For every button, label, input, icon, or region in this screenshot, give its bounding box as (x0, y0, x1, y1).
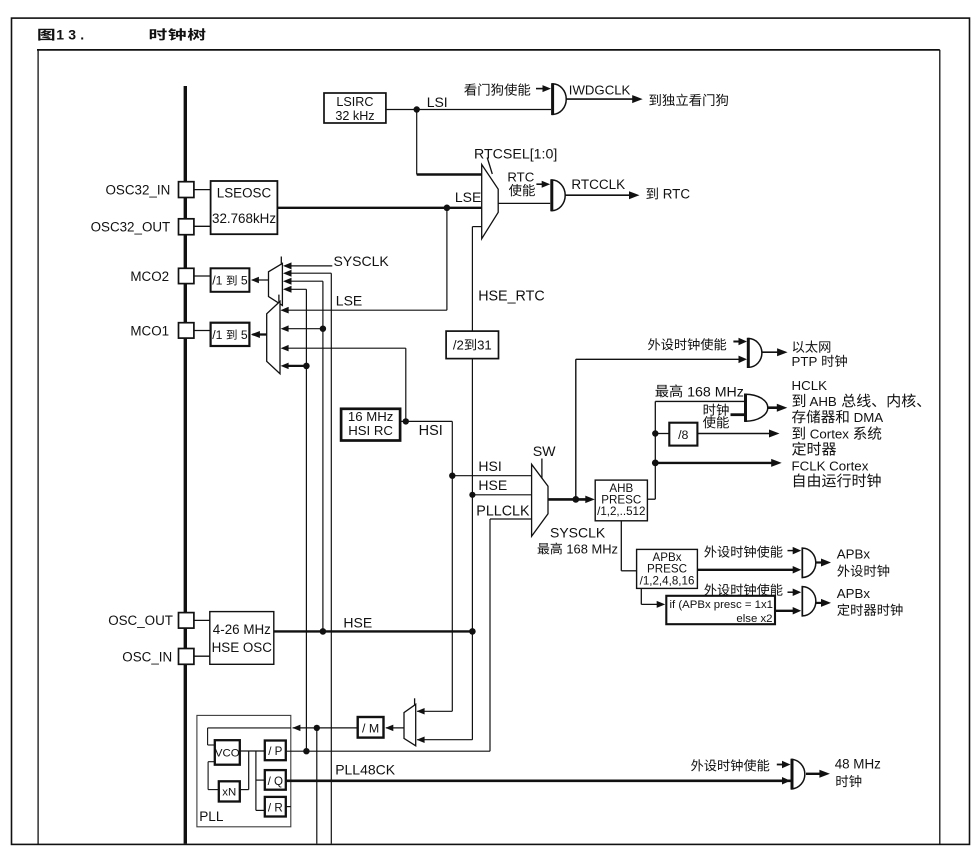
svg-text:4-26 MHz: 4-26 MHz (213, 622, 271, 637)
AND gate RTC (552, 179, 565, 211)
svg-text:LSE: LSE (455, 189, 481, 205)
svg-text:16 MHz: 16 MHz (348, 409, 393, 424)
svg-text:/ R: / R (268, 802, 283, 815)
wire /R stub (286, 806, 291, 808)
pin MCO1 (130, 323, 210, 339)
wire AHB to APBx (621, 521, 636, 571)
label PLL48CK (335, 761, 396, 777)
junction LSI (414, 106, 420, 112)
wire PTP enable arrow (733, 338, 747, 345)
divider /1到5 MCO1 (211, 323, 250, 346)
junction HSE MCO1 (320, 326, 326, 332)
junction HSE at SW tap (469, 492, 475, 498)
svg-text:HSE: HSE (343, 615, 372, 631)
wire AHB riser (647, 401, 744, 499)
arrow PTP signal (739, 356, 748, 364)
wire PLLCLK (286, 750, 490, 752)
wire PLL48CK (286, 779, 792, 782)
svg-text:/1,2,..512: /1,2,..512 (597, 505, 645, 518)
wire /M out (292, 725, 357, 732)
wire HSI to MCO1 mux (281, 345, 406, 422)
block PLL (197, 715, 291, 826)
wire HSE_RTC lower (471, 359, 473, 740)
wire RTC mux out (498, 202, 550, 204)
svg-text:else x2: else x2 (736, 613, 772, 625)
svg-text:APBx: APBx (837, 547, 871, 562)
svg-text:32 kHz: 32 kHz (335, 109, 374, 123)
divider /Q (265, 770, 286, 790)
AND gate APBx peripheral (802, 547, 816, 578)
svg-text:MCO1: MCO1 (130, 323, 169, 338)
svg-text:/ P: / P (268, 745, 282, 758)
arrow 48M signal (782, 777, 791, 785)
svg-text:OSC32_IN: OSC32_IN (106, 183, 171, 198)
wire if out (775, 607, 801, 615)
svg-text:/ M: / M (362, 722, 379, 736)
label watchdog enable (464, 83, 530, 95)
junction PLLI2S feed (314, 725, 320, 731)
wire HSE_RTC notch (472, 226, 481, 228)
svg-text:Cortex: Cortex (806, 427, 853, 442)
junction PLLCLK MCO1 (303, 363, 310, 370)
wire APB2 out (816, 599, 831, 607)
svg-text:RTCSEL[1:0]: RTCSEL[1:0] (474, 146, 557, 162)
pin OSC_IN (122, 649, 210, 665)
svg-text:FCLK Cortex: FCLK Cortex (792, 458, 869, 473)
svg-text:xN: xN (222, 787, 236, 799)
svg-text:HSI: HSI (478, 458, 501, 474)
prescaler AHB PRESC (595, 480, 647, 521)
wire MCO2 mux out (251, 277, 269, 283)
svg-text:RTC: RTC (659, 187, 690, 202)
wire 48M enable arrow (777, 761, 791, 768)
figure title (38, 26, 205, 42)
wire SYSCLK to PTP gate (576, 359, 742, 499)
prescaler APBx PRESC (637, 549, 698, 588)
svg-text:LSE: LSE (336, 292, 362, 308)
svg-text:PLL: PLL (199, 809, 224, 824)
label clock enable HCLK (703, 404, 729, 429)
svg-text:PLLCLK: PLLCLK (476, 504, 530, 520)
wire APBx out (697, 566, 801, 574)
label HSE at SW (478, 477, 507, 493)
wire divider feed (256, 751, 265, 810)
svg-text:DMA: DMA (850, 410, 883, 425)
wire PLLCLK to SW mux (476, 504, 531, 520)
divider /2到31 (446, 331, 498, 359)
pin OSC32_OUT (91, 219, 211, 235)
wire HSE (274, 615, 473, 632)
svg-text:VCO: VCO (215, 748, 240, 760)
wire SYSCLK stub to MCO2 mux (283, 253, 389, 269)
wire RTC enable arrow (536, 181, 550, 188)
wire PLLCLK riser (489, 519, 491, 751)
label APB1 clock enable (704, 545, 782, 557)
svg-text:/1: /1 (212, 328, 226, 342)
oscillator 4-26 MHz HSE OSC (210, 612, 274, 665)
svg-text:LSEOSC: LSEOSC (217, 186, 272, 201)
wire 48M out (806, 770, 830, 778)
wire SYSCLK out (548, 496, 595, 504)
mux MCO2 (269, 257, 283, 306)
wire RTCCLK out (565, 177, 639, 199)
pin OSC_OUT (108, 613, 210, 629)
junction FCLK (652, 460, 659, 467)
wire HSE to MCO2 mux (283, 278, 323, 632)
wire HSI to SW mux (452, 458, 531, 476)
wire HSI down (451, 421, 453, 711)
wire PLLCLK to MCO2 mux (283, 286, 306, 751)
wire VCO out (240, 750, 265, 752)
label APB2 clock enable (704, 584, 782, 596)
junction HSI mco (403, 418, 409, 424)
block VCO (215, 740, 240, 765)
oscillator LSEOSC 32.768kHz (211, 181, 278, 234)
mux PLL source (404, 698, 416, 746)
wire HSE to PLL mux (417, 737, 473, 744)
svg-text:SYSCLK: SYSCLK (334, 253, 390, 269)
junction HSE rtc (469, 628, 476, 635)
svg-text:APBx: APBx (837, 586, 871, 601)
wire HSE to SW mux (472, 494, 531, 496)
mux SW (532, 444, 557, 536)
wire APB1 out (816, 559, 831, 567)
wire PLL input (208, 728, 291, 745)
divider /1到5 MCO2 (211, 268, 250, 292)
svg-text:PLL48CK: PLL48CK (335, 761, 396, 777)
wire APB2 enable arrow (788, 589, 802, 597)
svg-text:HSI RC: HSI RC (348, 423, 393, 438)
svg-text:/1: /1 (212, 274, 226, 288)
label cortex systick (792, 426, 881, 455)
wire HCLK enable stub (731, 413, 745, 416)
svg-text:13.: 13. (56, 26, 88, 42)
label 48 MHz clock (835, 757, 881, 788)
svg-text:HSE_RTC: HSE_RTC (478, 288, 544, 304)
AND gate PTP (748, 338, 762, 368)
svg-text:/ Q: / Q (268, 775, 283, 788)
wire FCLK (655, 459, 781, 467)
wire APBx to if box (641, 588, 665, 608)
wire LSI to RTC mux (417, 110, 482, 175)
svg-text:LSI: LSI (427, 94, 448, 110)
AND gate IWDG (553, 83, 567, 115)
svg-text:PTP: PTP (792, 354, 821, 369)
multiplier if APBx presc (666, 596, 775, 625)
AND gate APBx timer (802, 586, 816, 617)
wire PTP out (762, 348, 788, 356)
label PTP clock enable (648, 338, 726, 350)
wire HSE_RTC (472, 227, 544, 332)
wire HSE to MCO1 mux (281, 325, 323, 332)
wire IWDGCLK out (566, 83, 643, 104)
divider /P (265, 741, 286, 761)
svg-text:if (APBx presc = 1x1: if (APBx presc = 1x1 (670, 599, 774, 611)
label to independent watchdog (649, 94, 728, 106)
chip boundary bus line (184, 86, 187, 844)
svg-text:168 MHz: 168 MHz (683, 384, 744, 400)
svg-text:MCO2: MCO2 (130, 269, 169, 284)
junction LSE (444, 205, 451, 212)
svg-text:SYSCLK: SYSCLK (550, 524, 606, 540)
wire LSE (277, 189, 481, 208)
oscillator LSIRC 32 kHz (324, 93, 386, 123)
mux RTCSEL (474, 146, 557, 238)
svg-text:HCLK: HCLK (792, 378, 828, 393)
divider /M (358, 717, 384, 738)
pin OSC32_IN (106, 182, 211, 198)
svg-text:OSC_IN: OSC_IN (122, 649, 172, 664)
label ethernet PTP (792, 341, 847, 369)
label max 168 MHz HCLK (655, 384, 743, 400)
wire MCO1 mux out (251, 331, 267, 338)
svg-text:31: 31 (477, 338, 492, 353)
wire div8 out (697, 430, 779, 438)
junction SYSCLK (572, 496, 579, 503)
divider /R (265, 797, 286, 817)
wire HSI to PLL mux (417, 708, 453, 715)
wire HSI out (400, 421, 452, 439)
label APBx peripheral clock (837, 547, 889, 577)
svg-text:SW: SW (533, 444, 556, 460)
label 48M clock enable (691, 759, 769, 771)
label SYSCLK (538, 524, 618, 556)
wire PLLCLK to MCO1 mux (281, 363, 307, 370)
svg-text:RTC: RTC (507, 170, 534, 185)
svg-text:32.768kHz: 32.768kHz (212, 211, 276, 226)
svg-text:IWDGCLK: IWDGCLK (569, 83, 631, 98)
svg-text:HSI: HSI (419, 423, 443, 439)
wire LSI (386, 94, 551, 110)
svg-text:168 MHz: 168 MHz (563, 541, 618, 556)
AND gate 48MHz (792, 759, 805, 790)
AND gate HCLK (746, 394, 768, 422)
svg-text:OSC32_OUT: OSC32_OUT (91, 220, 171, 235)
svg-text:5: 5 (238, 328, 248, 342)
wire HCLK out (768, 404, 788, 412)
svg-text:/2: /2 (453, 338, 464, 353)
block xN (219, 781, 240, 801)
label FCLK (792, 458, 881, 487)
wire PLL mux out (385, 725, 404, 732)
label to RTC (646, 187, 690, 202)
svg-text:AHB: AHB (807, 394, 841, 409)
svg-text:HSE: HSE (478, 477, 507, 493)
wire PLLI2S feed down (316, 728, 318, 844)
svg-text:/8: /8 (678, 428, 688, 442)
wire APB1 enable arrow (788, 547, 802, 555)
wire xN tap (240, 751, 249, 790)
wire LSE to MCO1 mux (281, 208, 447, 314)
svg-text:LSIRC: LSIRC (336, 95, 373, 109)
svg-text:48 MHz: 48 MHz (835, 757, 881, 772)
oscillator 16 MHz HSI RC (341, 409, 400, 441)
divider /8 (669, 423, 697, 446)
label HCLK lines (792, 378, 922, 425)
svg-text:RTCCLK: RTCCLK (571, 177, 625, 192)
wire VCO feedback (208, 762, 219, 790)
junction div8 (652, 430, 658, 436)
junction HSE mco (320, 628, 327, 635)
pin MCO2 (130, 268, 210, 284)
wire PLLI2S to MCO2 mux (283, 270, 331, 844)
junction HSI SW (449, 473, 455, 479)
svg-text:/1,2,4,8,16: /1,2,4,8,16 (640, 574, 695, 587)
svg-text:OSC_OUT: OSC_OUT (108, 613, 173, 628)
wire to div8 (655, 433, 669, 435)
mux MCO1 (267, 295, 280, 374)
svg-text:HSE OSC: HSE OSC (212, 640, 273, 655)
svg-text:5: 5 (238, 274, 248, 288)
arrow LSE into MCO1 mux (281, 307, 289, 314)
wire watchdog enable arrow (536, 85, 551, 92)
label APBx timer clock (837, 586, 903, 616)
label RTC enable (507, 170, 535, 197)
junction PLLCLK (303, 748, 309, 754)
